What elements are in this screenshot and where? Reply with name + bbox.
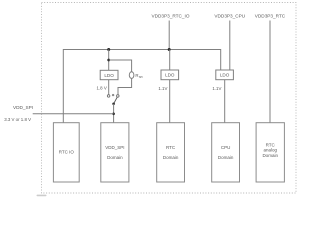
- svg-text:Domain: Domain: [218, 155, 234, 160]
- op-amp U3 (LDO 1.1V): [216, 70, 234, 80]
- wire VDD_SPI pin line: [33, 113, 114, 115]
- wire VDD3P3_RTC pin stub to RTC analog Domain: [269, 21, 271, 123]
- svg-text:Domain: Domain: [107, 155, 123, 160]
- svg-text:VDD3P3_RTC_IO: VDD3P3_RTC_IO: [152, 13, 190, 18]
- block RTC analog Domain: [256, 123, 284, 182]
- node branch to resistor: [107, 59, 110, 62]
- switch S1 actuator mark: [112, 94, 114, 96]
- node rail to LDO U1 junction: [107, 48, 110, 51]
- footer smudge: [37, 195, 47, 197]
- chip boundary (dashed): [42, 3, 297, 194]
- wire VDD3P3_RTC_IO pin stub: [168, 21, 170, 50]
- svg-text:VDD_SPI: VDD_SPI: [105, 145, 124, 150]
- block CPU Domain: [212, 123, 240, 182]
- svg-text:LDO: LDO: [165, 73, 175, 78]
- svg-text:1.8 V: 1.8 V: [97, 86, 107, 91]
- switch S1 left throw terminal: [107, 95, 110, 98]
- op-amp U2 (LDO 1.1V): [161, 70, 179, 80]
- svg-text:LDO: LDO: [220, 73, 230, 78]
- svg-text:RTC: RTC: [166, 145, 176, 150]
- wire switch common down to VDD_SPI Domain: [113, 104, 115, 123]
- svg-text:1.1V: 1.1V: [158, 86, 167, 91]
- node switch common: [112, 103, 115, 106]
- svg-text:RTC IO: RTC IO: [59, 150, 75, 155]
- svg-text:3.3 V or 1.8 V: 3.3 V or 1.8 V: [4, 117, 31, 122]
- switch S1 right throw terminal: [117, 95, 120, 98]
- wire 3.3V rail horizontal: [63, 50, 220, 123]
- wire VDD3P3_CPU pin stub into LDO U3: [229, 21, 231, 71]
- svg-text:1.1V: 1.1V: [212, 86, 221, 91]
- wire branch to resistor R_SPI: [109, 60, 132, 72]
- switch S1 lever: [114, 97, 118, 104]
- wire LDO U2 output to RTC Domain: [169, 80, 171, 123]
- resistor R_SPI: [129, 72, 134, 79]
- block RTC Domain: [157, 123, 185, 182]
- svg-text:SPI: SPI: [139, 75, 143, 79]
- op-amp U1 (LDO 1.8V): [100, 70, 118, 79]
- svg-text:VDD3P3_CPU: VDD3P3_CPU: [214, 13, 245, 18]
- svg-text:CPU: CPU: [221, 145, 231, 150]
- wire LDO U2 input: [169, 50, 171, 71]
- wire rail to LDO U1 input: [108, 50, 110, 71]
- node VDD3P3_RTC_IO rail junction: [168, 48, 171, 51]
- svg-text:VDD3P3_RTC: VDD3P3_RTC: [255, 13, 286, 18]
- node VDD_SPI line junction: [112, 113, 115, 116]
- svg-text:LDO: LDO: [104, 73, 114, 78]
- svg-text:Domain: Domain: [163, 155, 179, 160]
- block RTC IO: [53, 123, 79, 182]
- wire LDO U1 output to switch left throw: [108, 80, 110, 95]
- wire LDO U3 output to CPU Domain: [224, 80, 226, 123]
- svg-text:VDD_SPI: VDD_SPI: [13, 105, 33, 110]
- wire resistor R_SPI to switch right throw: [118, 78, 132, 94]
- svg-text:Domain: Domain: [262, 153, 278, 158]
- block VDD_SPI Domain: [101, 123, 129, 182]
